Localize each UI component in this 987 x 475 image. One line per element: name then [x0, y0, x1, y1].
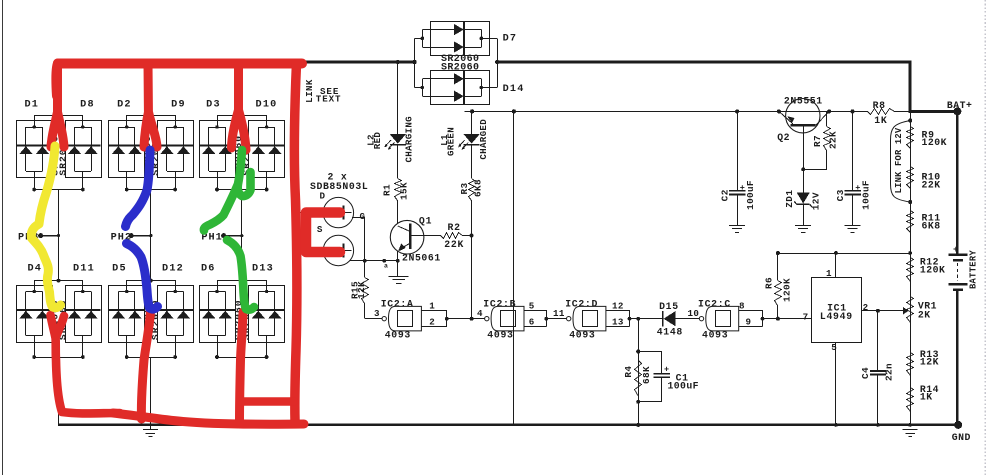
capacitor C1 branch	[639, 352, 671, 402]
svg-text:R6: R6	[764, 277, 775, 289]
resistor R1	[395, 179, 402, 201]
svg-text:R3: R3	[459, 182, 470, 194]
battery symbol	[949, 111, 968, 425]
svg-text:SR2060: SR2060	[441, 62, 479, 73]
wire Q1 cathode to ground	[396, 251, 400, 276]
resistor R15	[362, 261, 369, 304]
wire bridge boot	[125, 336, 177, 425]
transistor M1 (SDB85N03L MOSFET)	[323, 197, 353, 227]
svg-text:4148: 4148	[657, 327, 683, 338]
svg-text:R2: R2	[448, 222, 461, 233]
svg-text:1K: 1K	[920, 392, 933, 403]
svg-text:TEXT: TEXT	[316, 94, 342, 105]
red marker lower column 1	[51, 315, 121, 413]
resistor R12	[907, 258, 914, 282]
wire bridge boot	[32, 336, 84, 425]
wire link from top bus to MOSFET drains	[296, 62, 324, 251]
wire R3 down to R2 junction and gate chain	[470, 200, 474, 321]
wire IC2:A output to IC2:B input	[447, 318, 485, 320]
resistor R2	[410, 233, 471, 239]
wire bridge boot	[32, 172, 84, 236]
red marker column 1 feed	[51, 63, 64, 147]
wire from gate chain down to R4	[636, 319, 640, 427]
wire IC2:C output to IC1 pin7	[763, 317, 812, 321]
wire from top bus down to LED L2	[396, 60, 400, 134]
green marker phase 1 trace	[204, 150, 254, 310]
node PH2 terminal	[111, 233, 153, 244]
svg-text:11: 11	[553, 308, 565, 319]
diode D7 (SR2060 dual schottky package)	[421, 22, 490, 56]
svg-text:ZD1: ZD1	[784, 190, 795, 208]
svg-text:5: 5	[529, 301, 535, 312]
svg-text:R7: R7	[812, 135, 823, 147]
red marker top bus trace	[56, 64, 302, 97]
svg-text:22K: 22K	[444, 239, 464, 250]
wire bridge boot	[215, 336, 268, 425]
svg-text:Q1: Q1	[419, 216, 432, 227]
svg-text:12K: 12K	[920, 357, 939, 368]
page right edge dotted line	[984, 0, 986, 475]
ground under ZD1	[795, 225, 811, 227]
wire bridge boot	[215, 172, 268, 236]
svg-text:22K: 22K	[922, 180, 941, 191]
resistor R7 branch	[803, 111, 830, 169]
diode D12 (SR2060 dual schottky package)	[157, 286, 193, 343]
svg-text:6K8: 6K8	[922, 221, 941, 232]
svg-text:12V: 12V	[811, 192, 822, 210]
wire thick corner from top bus down to BAT+ rail	[909, 61, 912, 112]
diode D2 (SR2060 dual schottky package)	[109, 121, 145, 178]
IC U IC1 (L4949 regulator)	[812, 278, 862, 343]
svg-text:4093: 4093	[385, 329, 411, 340]
svg-text:BAT+: BAT+	[947, 100, 973, 111]
ground under Q1	[389, 276, 409, 278]
resistor R10	[907, 167, 914, 189]
capacitor C2 branch	[729, 109, 746, 225]
resistor R4	[635, 361, 642, 397]
svg-text:2: 2	[863, 302, 869, 313]
svg-text:13: 13	[612, 316, 624, 327]
wire top positive bus right of D7/D14 (thick)	[497, 61, 911, 64]
diode D6 (SR2060 dual schottky package)	[199, 286, 235, 343]
wire right divider chain	[910, 111, 912, 425]
svg-text:S: S	[317, 224, 323, 235]
wire M1 gate	[352, 218, 365, 261]
wire bridge hat	[218, 236, 267, 292]
svg-text:2: 2	[429, 316, 435, 327]
wire LED L1 to R3	[471, 145, 473, 178]
svg-text:D12: D12	[162, 263, 184, 274]
wire bridge hat	[218, 62, 267, 128]
wire IC2:D output to D15	[630, 317, 663, 321]
svg-text:R8: R8	[873, 100, 886, 111]
svg-text:10: 10	[688, 308, 700, 319]
svg-text:D11: D11	[73, 263, 95, 274]
svg-text:22n: 22n	[883, 363, 894, 381]
red marker bottom bus trace	[113, 413, 304, 424]
svg-text:D10: D10	[256, 99, 278, 110]
svg-text:5: 5	[831, 342, 837, 353]
svg-text:GREEN: GREEN	[446, 127, 457, 156]
wire bridge boot	[125, 172, 177, 236]
svg-text:R4: R4	[623, 366, 634, 378]
node BAT+ terminal	[947, 100, 973, 115]
svg-text:L4949: L4949	[820, 311, 853, 322]
ground symbol right	[903, 429, 918, 431]
resistor R9	[907, 127, 914, 149]
svg-text:1: 1	[826, 268, 832, 279]
svg-text:D1: D1	[24, 99, 39, 110]
wire R1 to Q1	[397, 200, 399, 223]
svg-text:IC2:A: IC2:A	[381, 298, 414, 309]
svg-text:120K: 120K	[922, 137, 948, 148]
wire bridge hat	[35, 62, 83, 128]
diode D10 (SR2060 dual schottky package)	[249, 121, 285, 178]
diode D8 (SR2060 dual schottky package)	[65, 121, 101, 178]
link for 12V jumper wire	[891, 119, 913, 427]
red marker lower column 3	[240, 312, 244, 421]
wire IC1 pin5 to ground bus	[834, 342, 838, 427]
wire IC1 pin1 to divider	[776, 251, 910, 277]
node PH1 terminal	[201, 233, 243, 244]
wire IC2:C input stubs	[739, 310, 765, 326]
svg-text:RED: RED	[372, 132, 383, 150]
wire IC2 supply vertical (BAT+ rail to ground bus)	[512, 109, 516, 425]
resistor R3	[469, 179, 475, 201]
wire bridge hat	[127, 236, 176, 292]
svg-text:LINK FOR 12V: LINK FOR 12V	[894, 127, 904, 193]
transistor Q2 (2N5551)	[777, 99, 831, 133]
wire bridge hat	[127, 62, 176, 128]
transistor M2 (SDB85N03L MOSFET)	[323, 235, 353, 265]
svg-text:12: 12	[612, 301, 624, 312]
svg-text:D8: D8	[80, 99, 95, 110]
wire top positive bus (thick)	[302, 61, 415, 64]
svg-text:68K: 68K	[641, 366, 652, 384]
svg-text:D15: D15	[659, 301, 679, 312]
svg-text:4093: 4093	[487, 329, 513, 340]
node PH3 terminal	[18, 233, 60, 244]
wire from BAT+ rail down to LED L1	[470, 109, 474, 134]
wire BAT+ rail thick segment to BAT+ terminal	[909, 110, 958, 113]
svg-text:D: D	[320, 191, 326, 202]
resistor R11	[907, 211, 914, 233]
svg-text:4: 4	[477, 308, 483, 319]
resistor R6	[775, 253, 782, 319]
svg-text:4093: 4093	[702, 329, 728, 340]
svg-text:D6: D6	[201, 263, 216, 274]
wire bridge hat	[35, 236, 83, 292]
svg-text:6: 6	[529, 316, 535, 327]
wire IC2:A input stubs	[421, 310, 448, 326]
svg-text:6K8: 6K8	[473, 179, 484, 197]
svg-text:D4: D4	[27, 263, 42, 274]
potentiometer VR1	[907, 297, 914, 323]
ground under C2	[729, 225, 745, 227]
svg-text:4093: 4093	[569, 329, 595, 340]
svg-text:Q2: Q2	[777, 132, 790, 143]
svg-text:CHARGING: CHARGING	[404, 116, 415, 163]
wire IC2:B output to IC2:D input	[546, 318, 566, 320]
svg-text:D14: D14	[503, 84, 525, 95]
svg-text:a: a	[384, 263, 388, 270]
capacitor C4 branch	[870, 311, 886, 427]
resistor R14	[907, 388, 914, 412]
wire R8 to thick corner	[894, 111, 910, 113]
svg-text:1: 1	[429, 301, 435, 312]
svg-text:100uF: 100uF	[745, 180, 756, 210]
wire ground bus (bottom)	[58, 424, 958, 426]
svg-text:100uF: 100uF	[861, 180, 872, 210]
wire IC2:D input stubs	[606, 310, 631, 326]
wire IC2:B input stubs	[524, 310, 548, 326]
gate IC2:B (4093 schmitt NAND)	[485, 306, 524, 331]
svg-text:7: 7	[803, 312, 809, 323]
svg-text:9: 9	[746, 316, 752, 327]
wire IC1 pin2 to VR1 wiper	[861, 307, 909, 315]
gate IC2:C (4093 schmitt NAND)	[699, 306, 738, 331]
svg-text:D3: D3	[206, 99, 221, 110]
diode D5 (SR2060 dual schottky package)	[109, 286, 145, 343]
blue marker phase 2 trace	[126, 150, 158, 309]
red marker bottom connector col3	[241, 397, 294, 406]
svg-text:2K: 2K	[918, 309, 931, 320]
svg-text:D7: D7	[503, 33, 518, 44]
svg-text:100uF: 100uF	[668, 380, 699, 391]
svg-text:D9: D9	[171, 99, 186, 110]
diode D9 (SR2060 dual schottky package)	[157, 121, 193, 178]
ground symbol bottom middle	[143, 425, 158, 437]
LED L1 GREEN	[458, 134, 480, 150]
svg-text:120K: 120K	[920, 265, 946, 276]
yellow marker phase 3 trace	[31, 146, 60, 308]
wire M2 gate to Q1 gate node	[350, 259, 398, 270]
svg-text:2N5551: 2N5551	[784, 95, 823, 106]
svg-text:8: 8	[739, 301, 745, 312]
red marker lower column 2	[141, 312, 150, 419]
red marker column 3 feed	[232, 64, 247, 151]
svg-text:LINK: LINK	[304, 79, 315, 103]
gate IC2:A (4093 schmitt NAND)	[382, 306, 421, 331]
svg-text:BATTERY: BATTERY	[969, 250, 979, 289]
svg-text:1K: 1K	[874, 115, 887, 126]
resistor R13	[907, 353, 914, 376]
svg-text:2N5061: 2N5061	[402, 253, 441, 264]
gate IC2:D (4093 schmitt NAND)	[567, 306, 606, 331]
svg-text:120K: 120K	[781, 278, 792, 302]
svg-text:CHARGED: CHARGED	[478, 119, 489, 160]
wire BAT+ rail thin segment	[465, 111, 868, 113]
capacitor C3 branch	[844, 109, 861, 225]
svg-text:D5: D5	[112, 263, 127, 274]
resistor R8	[868, 109, 895, 115]
ground under C3	[845, 225, 861, 227]
svg-text:+: +	[664, 365, 669, 375]
diode D11 (SR2060 dual schottky package)	[65, 286, 101, 343]
page left border line	[2, 0, 4, 475]
svg-text:+: +	[953, 244, 959, 255]
red marker long right vertical	[294, 64, 297, 421]
svg-text:IC2:D: IC2:D	[565, 298, 598, 309]
svg-text:GND: GND	[952, 432, 971, 443]
LED L2 RED	[384, 134, 406, 150]
svg-text:22K: 22K	[828, 131, 839, 149]
diode D15 (4148)	[663, 311, 700, 327]
svg-text:3: 3	[374, 308, 380, 319]
wire D7/D14 left connector	[412, 38, 422, 87]
wire LED L2 to R1	[397, 145, 399, 178]
diode D14 (SR2060 dual schottky package)	[421, 71, 490, 105]
wire R15 to IC2:A output	[365, 303, 383, 319]
diode D13 (SR2060 dual schottky package)	[249, 286, 285, 343]
svg-text:C4: C4	[860, 367, 871, 379]
transistor Q1 (2N5061 SCR)	[390, 220, 424, 254]
svg-text:IC2:B: IC2:B	[483, 298, 516, 309]
svg-text:R1: R1	[382, 184, 393, 196]
svg-text:15K: 15K	[399, 182, 410, 200]
diode D4 (SR2060 dual schottky package)	[16, 286, 52, 343]
wire D7/D14 right connector	[481, 38, 499, 87]
svg-text:IC2:C: IC2:C	[698, 298, 731, 309]
svg-text:12K: 12K	[356, 281, 367, 299]
node GND terminal	[952, 421, 971, 443]
zener diode ZD1 (12V)	[794, 169, 812, 225]
wire Q2 base to ZD1 node	[801, 127, 805, 172]
svg-text:D13: D13	[252, 263, 274, 274]
red marker MOSFET connector	[306, 213, 340, 253]
diode D3 (SR2060 dual schottky package)	[199, 121, 235, 178]
svg-text:C3: C3	[835, 189, 846, 201]
red marker column 2 feed	[144, 64, 157, 148]
svg-text:C2: C2	[719, 189, 730, 201]
svg-text:D2: D2	[117, 99, 132, 110]
diode D1 (SR2060 dual schottky package)	[16, 121, 52, 178]
